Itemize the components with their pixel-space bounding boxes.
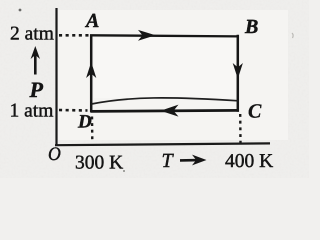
bottom edge second stroke	[92, 98, 239, 104]
svg-text:2 atm: 2 atm	[10, 24, 54, 45]
arrow D to A	[86, 62, 96, 78]
svg-text:1 atm: 1 atm	[10, 101, 54, 122]
T label arrow	[180, 159, 199, 162]
process A-B (top edge)	[90, 35, 239, 36]
svg-text:O: O	[48, 144, 61, 165]
svg-text:B: B	[244, 16, 258, 38]
paper speck right	[292, 33, 293, 38]
paper speck near 300 K	[123, 170, 125, 172]
dashed guide D to 300 K	[91, 117, 94, 143]
arrow A to B	[138, 30, 156, 41]
svg-text:D: D	[77, 112, 92, 133]
svg-text:300 K: 300 K	[75, 152, 123, 173]
process C-D (bottom edge, arrowed stroke)	[91, 110, 240, 111]
process D-A (left edge)	[90, 35, 93, 112]
P axis arrow	[34, 50, 37, 75]
paper speck top-left	[19, 9, 22, 12]
svg-text:A: A	[84, 10, 99, 32]
dashed guide C to 400 K	[239, 114, 242, 143]
T axis (horizontal)	[55, 143, 270, 145]
arrow C to D	[161, 105, 179, 117]
dashed guide 2 atm to A	[59, 34, 89, 37]
dashed guide 1 atm to D	[59, 109, 88, 112]
svg-text:400 K: 400 K	[225, 151, 273, 172]
process B-C (right edge)	[237, 35, 240, 112]
P axis (vertical)	[55, 8, 57, 145]
svg-text:P: P	[29, 77, 44, 102]
arrow B to C	[233, 63, 243, 79]
svg-text:C: C	[248, 101, 262, 123]
svg-text:T: T	[162, 150, 175, 172]
